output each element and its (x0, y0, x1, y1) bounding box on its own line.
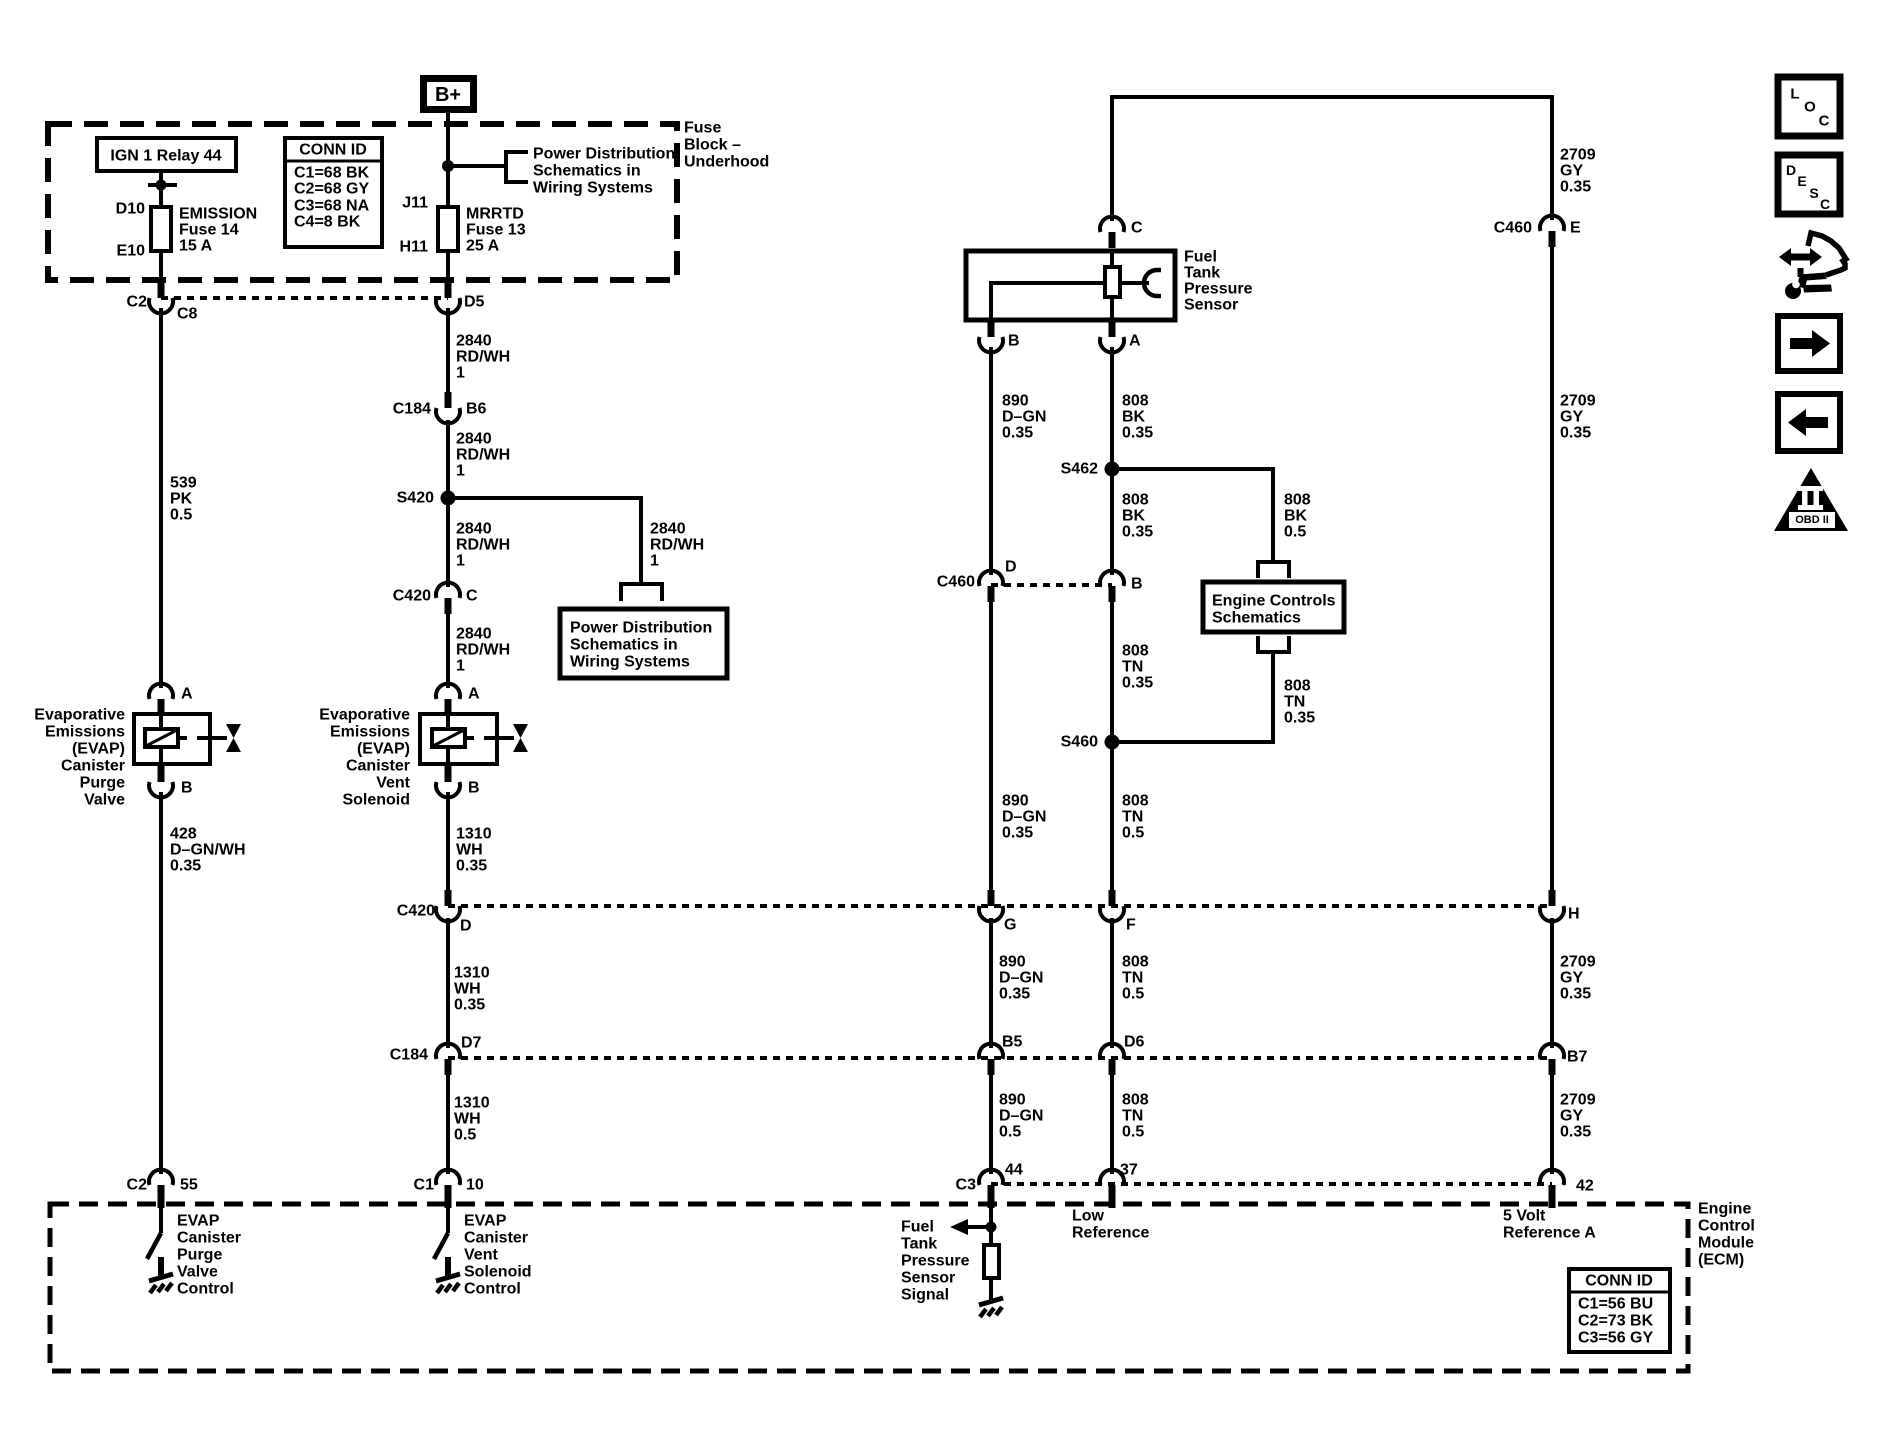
wire 1310 WH from C184 D7 to C1 pin 10 (446, 1074, 450, 1174)
fuse F13 MRRTD Fuse 13 25 A (438, 207, 458, 251)
svg-text:Canister: Canister (61, 758, 125, 775)
connector C2 pin C8 (149, 282, 173, 313)
icon forward arrow box (1778, 316, 1840, 371)
svg-text:Canister: Canister (177, 1230, 241, 1247)
svg-text:D6: D6 (1124, 1034, 1145, 1051)
wire 2840 RD/WH from S420 to C420 C (446, 498, 450, 587)
label C8 (177, 306, 198, 323)
svg-text:890: 890 (999, 1092, 1026, 1109)
label EMISSION Fuse 14 15 A (179, 206, 257, 255)
connector C420 pin D (436, 890, 460, 921)
wire down to sensor pin C (1110, 95, 1114, 221)
wire dotted connector row C460 D to B (991, 583, 1112, 587)
svg-text:Control: Control (177, 1281, 234, 1298)
svg-text:0.35: 0.35 (1560, 986, 1591, 1003)
connector purge valve pin A (149, 684, 173, 715)
connector C420 pin H (1540, 890, 1564, 921)
svg-text:C184: C184 (393, 401, 431, 418)
connector C2 pin 55 (149, 1170, 173, 1208)
off-page pointer engine controls schematics (top) (1258, 562, 1289, 578)
connector vent solenoid pin B (436, 766, 460, 797)
wire 2840 RD/WH from B6 to S420 (446, 420, 450, 500)
label wire 539 PK 0.5 (170, 475, 197, 524)
icon OBD II triangle (1774, 468, 1848, 531)
svg-text:0.5: 0.5 (1122, 825, 1144, 842)
label G (1004, 917, 1016, 934)
IGN 1 Relay 44 box (97, 138, 236, 171)
connector sensor pin A (1100, 321, 1124, 352)
svg-text:Control: Control (1698, 1218, 1755, 1235)
svg-text:S460: S460 (1061, 734, 1098, 751)
svg-text:O: O (1804, 99, 1816, 116)
svg-text:Wiring Systems: Wiring Systems (533, 180, 653, 197)
svg-text:1310: 1310 (454, 1095, 490, 1112)
wire 890 D-GN from G to B5 (989, 918, 993, 1048)
solenoid valve EVAP canister vent solenoid (420, 714, 528, 764)
label 55 (180, 1177, 198, 1194)
svg-text:B+: B+ (435, 84, 461, 106)
svg-text:Purge: Purge (177, 1247, 222, 1264)
svg-text:2840: 2840 (456, 431, 492, 448)
svg-text:C460: C460 (937, 574, 975, 591)
svg-text:GY: GY (1560, 163, 1583, 180)
off-page pointer to power distribution schematics (top) (506, 152, 528, 182)
svg-text:C4=8 BK: C4=8 BK (294, 214, 361, 231)
svg-text:2840: 2840 (456, 626, 492, 643)
svg-text:Engine Controls: Engine Controls (1212, 593, 1336, 610)
label wire 890 D-GN 0.35 (G-B5) (999, 954, 1043, 1003)
CONN ID table (fuse block) (285, 138, 382, 247)
label 37 (1120, 1162, 1138, 1179)
svg-text:0.35: 0.35 (1122, 675, 1153, 692)
wire signal node to sensor signal arrow (966, 1225, 991, 1229)
arrow fuel tank pressure sensor signal (950, 1219, 968, 1235)
label C460 (E) (1494, 220, 1532, 237)
connector C420 pin G (979, 890, 1003, 921)
svg-text:RD/WH: RD/WH (456, 349, 510, 366)
label wire 2840 RD/WH 1 (C420-A) (456, 626, 510, 675)
svg-text:TN: TN (1122, 659, 1143, 676)
label C (466, 588, 478, 605)
svg-text:B: B (1008, 333, 1020, 350)
svg-text:BK: BK (1284, 508, 1308, 525)
wire 808 TN from C460 B to S460 (1110, 601, 1114, 742)
svg-text:A: A (468, 686, 480, 703)
label EVAP canister vent solenoid (319, 707, 410, 809)
label EVAP canister purge valve control (177, 1213, 241, 1298)
svg-text:BK: BK (1122, 409, 1146, 426)
label C2 (55) (127, 1177, 148, 1194)
svg-text:H: H (1568, 906, 1580, 923)
solenoid valve EVAP canister purge valve (134, 714, 241, 764)
wire top bus from sensor C to 5 volt column (1112, 95, 1552, 99)
svg-text:Evaporative: Evaporative (34, 707, 125, 724)
wire dotted connector row C2/C8 to D5 (161, 296, 448, 300)
svg-text:Power Distribution: Power Distribution (533, 146, 675, 163)
label wire 2840 RD/WH 1 (B6-S420) (456, 431, 510, 480)
label D (1005, 559, 1017, 576)
label wire 808 BK 0.35 (S462-C460B) (1122, 492, 1153, 541)
svg-text:808: 808 (1122, 793, 1149, 810)
svg-text:0.35: 0.35 (1002, 425, 1033, 442)
label EVAP canister vent solenoid control (464, 1213, 532, 1298)
svg-text:B5: B5 (1002, 1034, 1023, 1051)
label F (1126, 917, 1136, 934)
svg-text:Sensor: Sensor (901, 1270, 955, 1287)
label power distribution schematics (top) (533, 146, 675, 197)
svg-text:Fuel: Fuel (1184, 249, 1217, 266)
svg-text:808: 808 (1122, 492, 1149, 509)
connector C1 pin 10 (436, 1170, 460, 1208)
power distribution schematics reference box (560, 609, 727, 678)
svg-text:RD/WH: RD/WH (650, 537, 704, 554)
wire dotted connector row C184 D7-B5-D6-B7 (448, 1056, 1552, 1060)
svg-text:0.5: 0.5 (170, 507, 192, 524)
svg-text:D–GN/WH: D–GN/WH (170, 842, 246, 859)
svg-text:Engine: Engine (1698, 1201, 1751, 1218)
svg-text:1: 1 (456, 463, 465, 480)
svg-text:E10: E10 (117, 243, 146, 260)
connector ECM pin 37 (1100, 1170, 1124, 1208)
svg-text:428: 428 (170, 826, 197, 843)
svg-text:Fuse 14: Fuse 14 (179, 222, 239, 239)
svg-text:PK: PK (170, 491, 193, 508)
label wire 2840 RD/WH 1 (D5-B6) (456, 333, 510, 382)
ground vent solenoid control driver (436, 1257, 460, 1293)
label low reference (1072, 1208, 1149, 1242)
svg-text:0.5: 0.5 (1284, 524, 1306, 541)
svg-text:D5: D5 (464, 294, 485, 311)
svg-text:B: B (1131, 576, 1143, 593)
wire 2709 GY from B7 to pin 42 (1550, 1074, 1554, 1174)
svg-text:808: 808 (1122, 1092, 1149, 1109)
svg-text:0.35: 0.35 (1002, 825, 1033, 842)
wire 808 TN from S460 to F (1110, 742, 1114, 892)
wire 808 BK from S462 to C460 B (1110, 469, 1114, 575)
svg-text:808: 808 (1284, 492, 1311, 509)
svg-text:MRRTD: MRRTD (466, 206, 524, 223)
svg-text:2709: 2709 (1560, 1092, 1596, 1109)
icon DESC box (1778, 155, 1840, 214)
icon LOC box (1778, 77, 1840, 136)
connector C420 pin C (436, 583, 460, 614)
svg-text:15 A: 15 A (179, 238, 213, 255)
label 44 (1005, 1162, 1023, 1179)
svg-text:2709: 2709 (1560, 393, 1596, 410)
svg-text:D10: D10 (116, 201, 145, 218)
svg-text:C460: C460 (1494, 220, 1532, 237)
label EVAP canister purge valve (34, 707, 125, 809)
svg-text:A: A (181, 686, 193, 703)
label fuse 13 terminals J11 H11 (400, 195, 429, 256)
label fuse block - underhood (684, 120, 769, 171)
wire 2709 GY from H to B7 (1550, 918, 1554, 1048)
label B7 (1567, 1049, 1588, 1066)
svg-text:42: 42 (1576, 1178, 1594, 1195)
label wire 2840 RD/WH 1 (branch) (650, 521, 704, 570)
wire dotted connector row C420 D-G-F-H (448, 904, 1552, 908)
svg-text:S420: S420 (397, 490, 434, 507)
node B+ branch junction (442, 160, 454, 172)
svg-text:Canister: Canister (464, 1230, 528, 1247)
label D7 (461, 1035, 482, 1052)
connector C184 pin B6 (436, 392, 460, 423)
svg-text:1310: 1310 (456, 826, 492, 843)
wire IGN 1 Relay 44 to Fuse 14 (159, 171, 163, 207)
label C420 (C) (393, 588, 431, 605)
svg-text:G: G (1004, 917, 1016, 934)
svg-text:Vent: Vent (464, 1247, 498, 1264)
svg-text:890: 890 (1002, 393, 1029, 410)
svg-text:5 Volt: 5 Volt (1503, 1208, 1546, 1225)
svg-text:1: 1 (456, 365, 465, 382)
svg-text:1: 1 (456, 658, 465, 675)
svg-text:0.35: 0.35 (454, 997, 485, 1014)
svg-text:Fuel: Fuel (901, 1219, 934, 1236)
svg-text:C420: C420 (393, 588, 431, 605)
svg-text:EVAP: EVAP (464, 1213, 507, 1230)
svg-text:Low: Low (1072, 1208, 1105, 1225)
label C3 (44) (956, 1177, 977, 1194)
svg-text:D–GN: D–GN (999, 1108, 1043, 1125)
svg-text:C: C (1820, 196, 1830, 212)
wire junction to power distribution pointer (448, 164, 506, 168)
svg-text:Evaporative: Evaporative (319, 707, 410, 724)
connector C3 pin 44 (979, 1170, 1003, 1208)
svg-text:C1: C1 (414, 1177, 435, 1194)
wire 2709 GY down to C460 E (1550, 95, 1554, 220)
label wire 890 D-GN 0.35 (B-C460D) (1002, 393, 1046, 442)
svg-text:0.35: 0.35 (999, 986, 1030, 1003)
svg-text:0.5: 0.5 (1122, 1124, 1144, 1141)
wire 890 D-GN from sensor pin B to C460 D (989, 347, 993, 575)
svg-text:B6: B6 (466, 401, 487, 418)
svg-text:D–GN: D–GN (1002, 809, 1046, 826)
svg-text:C2=73 BK: C2=73 BK (1578, 1313, 1654, 1330)
connector purge valve pin B (149, 766, 173, 797)
wire dotted connector row C3 44-37-42 (991, 1182, 1552, 1186)
connector C460 pin E (1540, 216, 1564, 247)
svg-text:890: 890 (999, 954, 1026, 971)
engine controls schematics reference box (1203, 582, 1344, 632)
node S420 splice (441, 491, 456, 506)
wire 1310 WH from vent solenoid pin B to C420 D (446, 792, 450, 892)
wire 2709 GY from C460 E to H (1550, 246, 1554, 892)
svg-text:D7: D7 (461, 1035, 482, 1052)
svg-text:0.35: 0.35 (1560, 179, 1591, 196)
svg-text:Schematics: Schematics (1212, 610, 1301, 627)
label 5 volt reference A (1503, 1208, 1596, 1242)
label pin B (vent) (468, 780, 480, 797)
svg-text:Signal: Signal (901, 1287, 949, 1304)
svg-text:Canister: Canister (346, 758, 410, 775)
wire C3-44 into ECM to signal node (989, 1202, 993, 1247)
wire 2840 RD/WH from D5 to C184 B6 (446, 308, 450, 394)
label pin B (sensor) (1008, 333, 1020, 350)
CONN ID table (ECM) (1569, 1269, 1670, 1352)
svg-text:Vent: Vent (376, 775, 410, 792)
wire engine controls pointer down to S460 level (1271, 651, 1275, 744)
svg-text:44: 44 (1005, 1162, 1023, 1179)
svg-text:37: 37 (1120, 1162, 1138, 1179)
icon harness/wrench (connector end view) (1779, 233, 1846, 299)
label B5 (1002, 1034, 1023, 1051)
label D6 (1124, 1034, 1145, 1051)
svg-text:C: C (1819, 113, 1830, 130)
wire S462 branch down to engine controls pointer (1271, 467, 1275, 562)
svg-text:1: 1 (456, 553, 465, 570)
svg-text:GY: GY (1560, 409, 1583, 426)
svg-text:55: 55 (180, 1177, 198, 1194)
wire 808 TN from D6 to pin 37 (1110, 1074, 1114, 1174)
wire 890 D-GN from B5 to C3 pin 44 (989, 1074, 993, 1174)
label pin A (purge) (181, 686, 193, 703)
svg-text:F: F (1126, 917, 1136, 934)
ground ECM internal (979, 1298, 1003, 1317)
wire 428 D-GN/WH from purge valve pin B to C2 pin 55 (159, 792, 163, 1174)
svg-text:2840: 2840 (456, 333, 492, 350)
svg-text:C3=56 GY: C3=56 GY (1578, 1330, 1653, 1347)
svg-text:1310: 1310 (454, 965, 490, 982)
svg-text:Power Distribution: Power Distribution (570, 620, 712, 637)
svg-text:808: 808 (1122, 643, 1149, 660)
wire 1310 WH from C420 D to C184 D7 (446, 918, 450, 1048)
icon back arrow box (1778, 394, 1840, 451)
switch purge valve control driver (147, 1233, 161, 1259)
svg-text:Block –: Block – (684, 137, 741, 154)
svg-text:BK: BK (1122, 508, 1146, 525)
label wire 808 TN 0.5 (F-D6) (1122, 954, 1149, 1003)
svg-text:C3: C3 (956, 1177, 977, 1194)
label S460 (1061, 734, 1098, 751)
svg-text:CONN ID: CONN ID (1585, 1273, 1653, 1290)
connector C184 pin D6 (1100, 1044, 1124, 1075)
svg-text:2709: 2709 (1560, 147, 1596, 164)
label C184 (B6) (393, 401, 431, 418)
node S460 splice (1105, 735, 1120, 750)
label C420 (D) (397, 903, 435, 920)
label wire 2709 GY 0.35 (H-B7) (1560, 954, 1596, 1003)
off-page pointer to power distribution schematics (S420 branch) (621, 584, 662, 601)
svg-text:(EVAP): (EVAP) (357, 741, 410, 758)
svg-text:0.35: 0.35 (1560, 425, 1591, 442)
svg-text:EVAP: EVAP (177, 1213, 220, 1230)
svg-text:C8: C8 (177, 306, 198, 323)
wire C1-10 into ECM (446, 1206, 450, 1233)
svg-text:E: E (1570, 220, 1581, 237)
svg-text:0.5: 0.5 (999, 1124, 1021, 1141)
label engine control module (ECM) (1698, 1201, 1755, 1269)
svg-text:RD/WH: RD/WH (456, 447, 510, 464)
label wire 808 BK 0.35 (A-S462) (1122, 393, 1153, 442)
fuse F14 EMISSION Fuse 14 15 A (151, 207, 171, 251)
fuel tank pressure sensor box (966, 251, 1175, 320)
connector C460 pin B (1100, 571, 1124, 602)
label wire 808 TN 0.5 (D6-37) (1122, 1092, 1149, 1141)
svg-text:(ECM): (ECM) (1698, 1252, 1744, 1269)
label 42 (1576, 1178, 1594, 1195)
wire 2840 RD/WH from C420 C to vent solenoid pin A (446, 613, 450, 688)
label wire 2709 GY 0.35 (top) (1560, 147, 1596, 196)
svg-text:B7: B7 (1567, 1049, 1588, 1066)
svg-text:S462: S462 (1061, 461, 1098, 478)
svg-text:Schematics in: Schematics in (533, 163, 641, 180)
svg-text:TN: TN (1122, 1108, 1143, 1125)
connector ECM pin 42 (1540, 1170, 1564, 1208)
connector sensor pin C (1100, 217, 1124, 248)
label pin A (vent) (468, 686, 480, 703)
ground purge valve control driver (149, 1257, 173, 1293)
svg-text:1: 1 (650, 553, 659, 570)
svg-text:Solenoid: Solenoid (342, 792, 410, 809)
svg-text:Purge: Purge (80, 775, 125, 792)
svg-text:808: 808 (1122, 954, 1149, 971)
svg-text:Solenoid: Solenoid (464, 1264, 532, 1281)
svg-text:0.35: 0.35 (1560, 1124, 1591, 1141)
svg-text:Pressure: Pressure (901, 1253, 970, 1270)
label wire 808 TN 0.35 (branch) (1284, 678, 1315, 727)
label D (C420) (460, 918, 472, 935)
svg-text:C184: C184 (390, 1047, 428, 1064)
label wire 808 TN 0.35 (C460B-S460) (1122, 643, 1153, 692)
label wire 890 D-GN 0.5 (B5-44) (999, 1092, 1043, 1141)
wire S462 branch horizontal 808 BK (1112, 467, 1273, 471)
wire 539 PK from C8 to purge valve pin A (159, 308, 163, 688)
svg-text:RD/WH: RD/WH (456, 537, 510, 554)
svg-text:25 A: 25 A (466, 238, 500, 255)
svg-text:Pressure: Pressure (1184, 281, 1253, 298)
svg-text:808: 808 (1122, 393, 1149, 410)
svg-text:890: 890 (1002, 793, 1029, 810)
svg-text:0.35: 0.35 (1122, 425, 1153, 442)
svg-text:C2: C2 (127, 1177, 148, 1194)
wire resistor to ground (989, 1278, 993, 1302)
label B (C460) (1131, 576, 1143, 593)
connector vent solenoid pin A (436, 684, 460, 715)
label C460 (D) (937, 574, 975, 591)
svg-text:CONN ID: CONN ID (299, 142, 367, 159)
svg-text:D: D (460, 918, 472, 935)
label wire 808 BK 0.5 (branch) (1284, 492, 1311, 541)
svg-text:D–GN: D–GN (1002, 409, 1046, 426)
svg-text:Schematics in: Schematics in (570, 637, 678, 654)
svg-text:B: B (181, 780, 193, 797)
node S462 splice (1105, 462, 1120, 477)
svg-text:2840: 2840 (650, 521, 686, 538)
off-page pointer engine controls schematics (bottom) (1258, 636, 1289, 652)
label fuel tank pressure sensor signal (901, 1219, 970, 1304)
label E (1570, 220, 1581, 237)
svg-text:D–GN: D–GN (999, 970, 1043, 987)
node relay tap (148, 180, 177, 191)
svg-text:0.5: 0.5 (1122, 986, 1144, 1003)
svg-text:EMISSION: EMISSION (179, 206, 257, 223)
wire 890 D-GN from C460 D to G (989, 601, 993, 892)
svg-text:C1=56 BU: C1=56 BU (1578, 1296, 1653, 1313)
wire 808 BK from sensor pin A to S462 (1110, 347, 1114, 470)
wire S460 branch horizontal 808 TN (1112, 740, 1273, 744)
svg-text:808: 808 (1284, 678, 1311, 695)
svg-text:J11: J11 (402, 195, 428, 212)
svg-text:E: E (1797, 173, 1806, 189)
wire Fuse 14 to connector C2 (159, 251, 163, 284)
svg-text:0.35: 0.35 (1284, 710, 1315, 727)
svg-text:A: A (1129, 333, 1141, 350)
label C2 (127, 294, 148, 311)
svg-text:Sensor: Sensor (1184, 297, 1238, 314)
svg-text:D: D (1005, 559, 1017, 576)
label wire 1310 WH 0.5 (D7-10) (454, 1095, 490, 1144)
